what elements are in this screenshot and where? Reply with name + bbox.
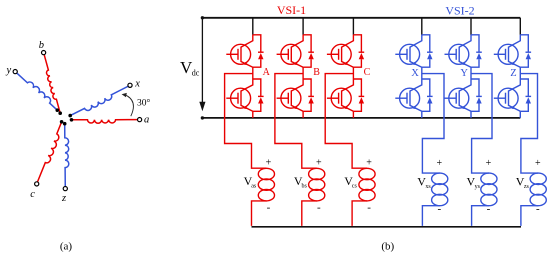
label Vas [244,174,257,190]
IGBT switch lower switch Y [445,79,472,111]
wire: phase Y output to load [471,74,492,174]
node dot (star point) for phase c [60,120,64,124]
svg-text:-: - [487,203,491,215]
svg-text:(a): (a) [60,241,73,253]
svg-text:cs: cs [352,184,358,190]
wire: top bus stub leg Z [519,18,521,35]
wire: phase X output to load [422,74,444,174]
Vdc arrow line [199,18,205,111]
svg-text:+: + [366,157,372,168]
wire: top bus stub leg X [421,18,423,35]
svg-text:z: z [61,193,66,204]
IGBT switch lower switch B [277,79,304,111]
svg-text:y: y [5,65,11,76]
winding coil phase z [65,124,69,189]
svg-text:+: + [266,157,272,168]
anti-parallel diode of upper switch B [303,35,314,67]
anti-parallel diode of lower switch X [422,79,433,111]
label Vxs [417,175,431,191]
svg-text:c: c [30,189,35,200]
IGBT switch lower switch X [395,79,422,111]
svg-text:-: - [437,203,441,215]
label Vbs [294,174,308,190]
wire: leg B to DC- bus [302,111,304,118]
wire: leg C to DC- bus [352,111,354,118]
wire: load Z to neutral bus [521,206,538,226]
label Vzs [516,175,530,191]
svg-text:Y: Y [460,68,468,79]
anti-parallel diode of lower switch C [353,79,364,111]
wire: top bus stub leg B [302,18,304,35]
svg-text:(b): (b) [381,241,394,253]
terminal a [138,118,142,122]
30 degree angle arc arrow [122,93,134,116]
wire: top bus stub leg A [252,18,254,35]
anti-parallel diode of lower switch B [303,79,314,111]
anti-parallel diode of lower switch Y [471,79,482,111]
svg-text:+: + [486,158,492,169]
wire: phase B output to load [275,74,317,169]
svg-text:-: - [367,202,371,214]
svg-text:+: + [316,157,322,168]
anti-parallel diode of upper switch A [253,35,264,67]
wire: leg X to DC- bus [421,111,423,118]
load inductor Vys [481,173,497,206]
svg-text:VSI-1: VSI-1 [277,3,306,17]
IGBT switch lower switch Z [494,79,521,111]
node dot (star point) for phase a [70,118,74,122]
anti-parallel diode of upper switch C [353,35,364,67]
winding coil phase a [72,120,140,124]
label Vys [467,175,481,191]
IGBT switch upper switch C [327,35,354,67]
svg-text:B: B [313,67,320,78]
svg-text:dc: dc [192,69,200,78]
svg-text:-: - [267,202,271,214]
IGBT switch lower switch A [226,79,253,111]
wire: load A to neutral bus [252,201,267,226]
wire: phase C output to load [325,74,367,169]
wire: mid leg C [352,67,354,79]
node dot (star point) for phase z [63,122,67,126]
svg-text:zs: zs [524,184,530,190]
DC negative bottom bus [202,117,520,119]
svg-text:bs: bs [302,184,308,190]
anti-parallel diode of lower switch Z [520,79,531,111]
winding coil phase b [44,53,61,114]
terminal z [63,187,67,191]
IGBT switch upper switch X [395,35,422,67]
anti-parallel diode of upper switch X [422,35,433,67]
wire: leg Y to DC- bus [470,111,472,118]
wire: top bus stub leg Y [470,18,472,35]
IGBT switch upper switch Z [494,35,521,67]
wire: load C to neutral bus [352,201,367,226]
svg-text:x: x [134,79,140,90]
svg-text:xs: xs [425,184,431,190]
wire: phase Z output to load [520,74,538,174]
wire: mid leg B [302,67,304,79]
IGBT switch upper switch A [226,35,253,67]
svg-text:Z: Z [510,68,516,79]
svg-text:+: + [436,158,442,169]
neutral star-point bus [252,226,522,228]
wire: leg Z to DC- bus [519,111,521,118]
svg-text:VSI-2: VSI-2 [445,4,474,18]
node dot (star point) for phase b [58,111,62,115]
load inductor Vas [258,168,274,201]
anti-parallel diode of lower switch A [253,79,264,111]
IGBT switch upper switch B [277,35,304,67]
svg-text:X: X [411,68,419,79]
wire: mid leg Z [519,67,521,79]
svg-text:-: - [317,202,321,214]
label Vdc [180,58,200,78]
label Vcs [344,174,357,190]
wire: mid leg Y [470,67,472,79]
svg-text:-: - [536,203,540,215]
wire: load B to neutral bus [302,201,317,226]
winding coil phase c [37,122,62,184]
node dot DC+ [201,16,204,19]
wire: mid leg X [421,67,423,79]
svg-text:as: as [251,184,257,190]
anti-parallel diode of upper switch Y [471,35,482,67]
load inductor Vxs [432,173,448,206]
wire: load Y to neutral bus [472,206,489,226]
node dot DC- [201,116,204,119]
svg-text:C: C [364,67,371,78]
node dot (star point) for phase x [68,114,72,118]
svg-text:b: b [39,40,44,51]
anti-parallel diode of upper switch Z [520,35,531,67]
load inductor Vcs [359,168,375,201]
svg-text:+: + [535,158,541,169]
winding coil phase y [15,72,57,111]
terminal c [35,182,39,186]
load inductor Vzs [530,173,546,206]
wire: leg A to DC- bus [252,111,254,118]
terminal x [128,83,132,87]
wire: top bus stub leg C [352,18,354,35]
svg-text:A: A [263,67,271,78]
terminal y [13,70,17,74]
wire: phase A output to load [225,74,267,169]
wire: load X to neutral bus [422,206,439,226]
svg-text:ys: ys [475,184,481,190]
load inductor Vbs [309,168,325,201]
IGBT switch upper switch Y [445,35,472,67]
svg-text:a: a [144,115,149,126]
IGBT switch lower switch C [327,79,354,111]
wire: mid leg A [252,67,254,79]
node dot (star point) for phase y [56,108,60,112]
winding coil phase x [70,85,130,115]
terminal b [42,51,46,55]
svg-text:30°: 30° [137,98,151,109]
DC positive top bus [202,17,520,19]
